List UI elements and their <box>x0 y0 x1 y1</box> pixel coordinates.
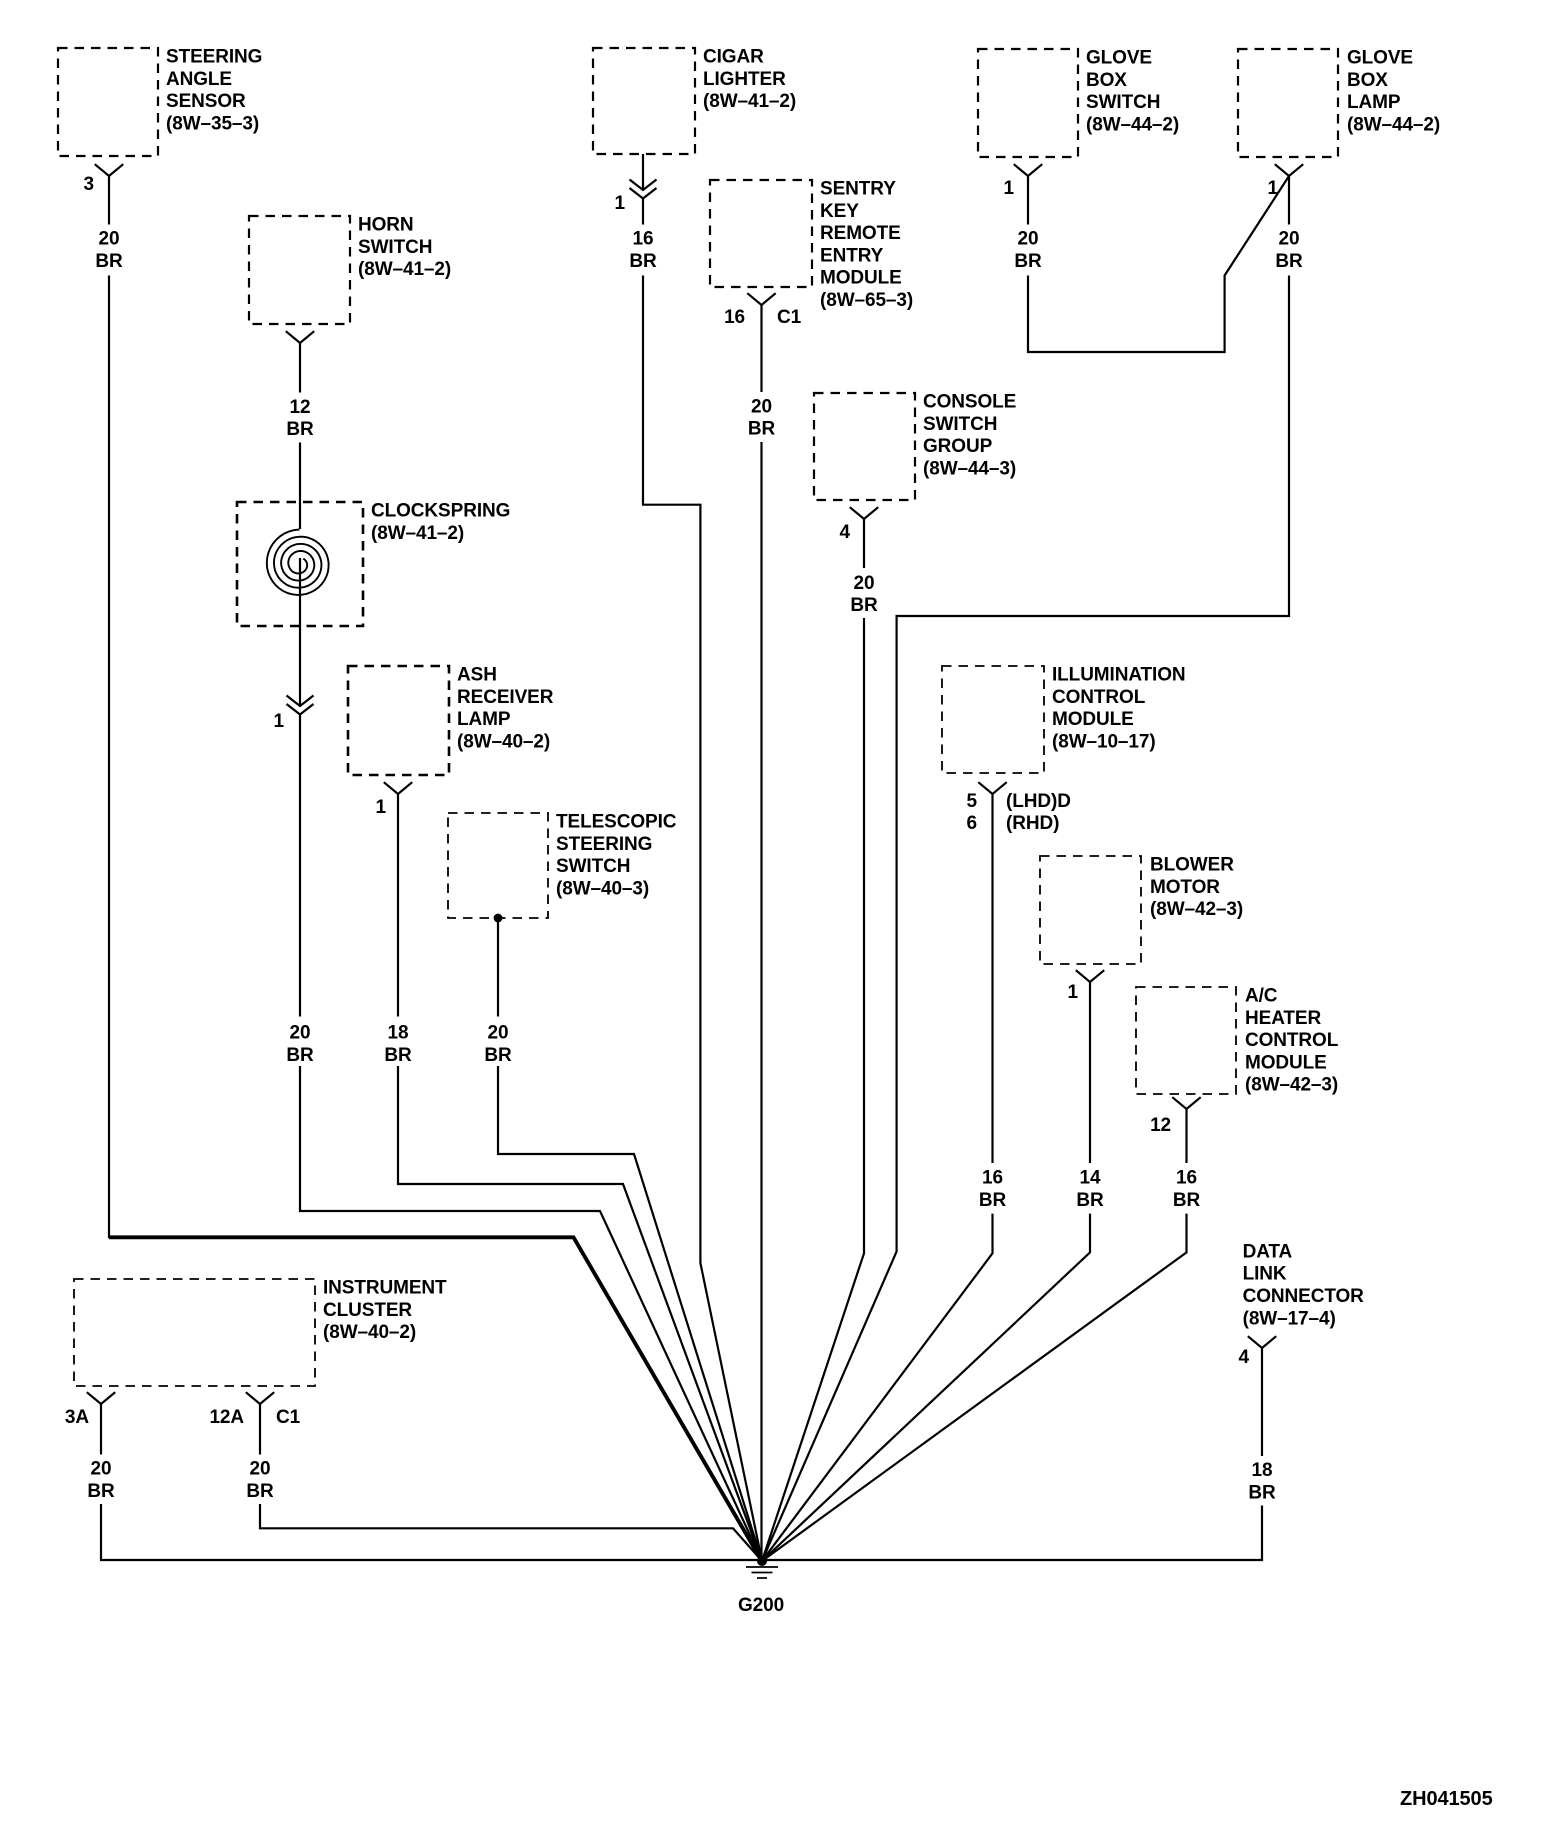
console switch group connector Y <box>850 507 878 519</box>
svg-text:BR: BR <box>1076 1190 1104 1211</box>
svg-text:BR: BR <box>286 1045 314 1066</box>
svg-text:CLUSTER: CLUSTER <box>323 1300 412 1321</box>
svg-text:(RHD): (RHD) <box>1006 813 1059 834</box>
wire label 12 BR (horn switch) <box>286 397 314 440</box>
wire: blower motor to G200 <box>762 982 1090 1561</box>
label (RHD) <box>1006 813 1059 834</box>
svg-text:MOTOR: MOTOR <box>1150 877 1220 898</box>
steering angle sensor label <box>166 47 262 135</box>
cigar lighter label <box>703 47 796 113</box>
illumination control module component box <box>942 666 1044 773</box>
blower motor label <box>1150 855 1243 921</box>
svg-text:INSTRUMENT: INSTRUMENT <box>323 1278 447 1299</box>
svg-text:SENTRY: SENTRY <box>820 179 896 200</box>
wire label 18 BR (data link connector) <box>1248 1460 1276 1503</box>
wire label 20 BR (glove box switch) <box>1014 229 1042 272</box>
svg-text:BR: BR <box>1173 1190 1201 1211</box>
svg-text:CIGAR: CIGAR <box>703 47 764 68</box>
svg-text:ASH: ASH <box>457 665 497 686</box>
svg-text:GLOVE: GLOVE <box>1347 48 1413 69</box>
clockspring label <box>371 501 510 544</box>
pin 5 (illumination module LHD) <box>967 791 978 812</box>
ash receiver lamp component box <box>348 666 449 775</box>
svg-text:5: 5 <box>967 791 978 812</box>
console switch group label <box>923 392 1016 480</box>
svg-text:(8W–10–17): (8W–10–17) <box>1052 731 1156 752</box>
svg-text:(8W–44–2): (8W–44–2) <box>1086 114 1179 135</box>
svg-text:16: 16 <box>633 229 654 250</box>
cigar lighter component box <box>593 48 695 154</box>
wire: ash receiver lamp to G200 <box>398 794 762 1561</box>
svg-text:CONSOLE: CONSOLE <box>923 392 1016 413</box>
svg-text:12: 12 <box>290 397 311 418</box>
svg-text:CLOCKSPRING: CLOCKSPRING <box>371 501 510 522</box>
telescopic steering switch label <box>556 812 677 900</box>
pin 1 (clockspring connector) <box>274 711 285 732</box>
A/C heater control module component box <box>1136 987 1236 1094</box>
svg-text:20: 20 <box>290 1023 311 1044</box>
svg-text:BR: BR <box>286 419 314 440</box>
svg-text:REMOTE: REMOTE <box>820 223 901 244</box>
illumination control module connector Y <box>978 782 1006 794</box>
svg-text:(8W–17–4): (8W–17–4) <box>1243 1308 1336 1329</box>
svg-text:20: 20 <box>488 1023 509 1044</box>
pin 4 (data link connector) <box>1239 1347 1250 1368</box>
pin 16 (sentry key module) <box>724 307 745 328</box>
glove box lamp connector Y <box>1275 164 1303 176</box>
svg-text:C1: C1 <box>276 1407 301 1428</box>
ground label G200 <box>738 1595 784 1616</box>
svg-text:BR: BR <box>748 419 776 440</box>
svg-text:SWITCH: SWITCH <box>1086 92 1160 113</box>
sentry key module connector Y <box>747 293 775 305</box>
svg-text:(8W–41–2): (8W–41–2) <box>703 91 796 112</box>
wire: A/C heater control module to G200 <box>762 1109 1187 1561</box>
svg-text:(8W–41–2): (8W–41–2) <box>371 523 464 544</box>
wire label 14 BR (blower motor) <box>1076 1168 1104 1211</box>
svg-text:20: 20 <box>751 396 772 417</box>
label (LHD)D <box>1006 791 1071 812</box>
wire label 16 BR (A/C heater control module) <box>1173 1168 1201 1211</box>
pin 1 (glove box lamp) <box>1268 178 1279 199</box>
svg-text:20: 20 <box>854 573 875 594</box>
illumination control module label <box>1052 665 1186 753</box>
svg-text:(8W–41–2): (8W–41–2) <box>358 259 451 280</box>
telescopic steering switch junction dot <box>494 914 503 923</box>
svg-text:BOX: BOX <box>1347 70 1388 91</box>
svg-text:(8W–40–2): (8W–40–2) <box>323 1322 416 1343</box>
svg-text:(LHD)D: (LHD)D <box>1006 791 1071 812</box>
svg-text:1: 1 <box>274 711 285 732</box>
svg-text:16: 16 <box>724 307 745 328</box>
svg-text:ANGLE: ANGLE <box>166 69 232 90</box>
clockspring in-line connector chevrons <box>287 696 314 715</box>
wire: cigar lighter connector to G200 <box>643 199 762 1562</box>
wire: console switch group to G200 <box>762 519 864 1561</box>
steering angle sensor component box <box>58 48 158 156</box>
wire label 20 BR (glove box lamp) <box>1275 229 1303 272</box>
svg-text:BOX: BOX <box>1086 70 1127 91</box>
svg-text:RECEIVER: RECEIVER <box>457 687 554 708</box>
svg-text:ILLUMINATION: ILLUMINATION <box>1052 665 1186 686</box>
ash receiver lamp label <box>457 665 554 753</box>
svg-text:(8W–44–2): (8W–44–2) <box>1347 114 1440 135</box>
pin 4 (console switch group) <box>840 522 851 543</box>
svg-text:1: 1 <box>1068 982 1079 1003</box>
glove box lamp component box <box>1238 49 1338 157</box>
svg-text:SWITCH: SWITCH <box>358 237 432 258</box>
glove box switch connector Y <box>1014 164 1042 176</box>
svg-text:LAMP: LAMP <box>457 709 511 730</box>
svg-text:16: 16 <box>982 1168 1003 1189</box>
steering angle sensor connector Y <box>95 164 123 176</box>
wire label 16 BR (cigar lighter) <box>629 229 657 272</box>
clockspring spiral symbol <box>267 530 329 595</box>
svg-text:BR: BR <box>95 251 123 272</box>
wire label 16 BR (illumination control module) <box>979 1168 1007 1211</box>
svg-text:3A: 3A <box>65 1407 89 1428</box>
clockspring component box <box>237 502 363 626</box>
drawing number ZH041505 <box>1400 1788 1493 1810</box>
svg-text:BR: BR <box>384 1045 412 1066</box>
svg-text:(8W–44–3): (8W–44–3) <box>923 458 1016 479</box>
svg-text:BR: BR <box>979 1190 1007 1211</box>
svg-text:KEY: KEY <box>820 201 859 222</box>
svg-text:SWITCH: SWITCH <box>923 414 997 435</box>
wire label 20 BR (steering angle sensor) <box>95 229 123 272</box>
data link connector Y <box>1248 1336 1276 1348</box>
svg-text:A/C: A/C <box>1245 986 1278 1007</box>
svg-text:STEERING: STEERING <box>556 834 652 855</box>
horn switch component box <box>249 216 350 324</box>
svg-text:CONTROL: CONTROL <box>1052 687 1146 708</box>
wire: glove box switch to glove box lamp junction <box>1028 176 1289 352</box>
svg-text:BR: BR <box>87 1481 115 1502</box>
wire: instrument cluster pin 3A to G200 <box>101 1404 762 1560</box>
wire: horn switch to clockspring <box>299 343 301 529</box>
svg-text:TELESCOPIC: TELESCOPIC <box>556 812 677 833</box>
wire label 20 BR (sentry key module) <box>748 396 776 439</box>
pin 12A (instrument cluster) <box>209 1407 244 1428</box>
svg-text:SWITCH: SWITCH <box>556 856 630 877</box>
svg-text:16: 16 <box>1176 1168 1197 1189</box>
wire: steering angle sensor to ground run (vertical) <box>108 176 110 1238</box>
svg-text:MODULE: MODULE <box>820 268 902 289</box>
svg-text:MODULE: MODULE <box>1245 1052 1327 1073</box>
ground symbol G200 <box>746 1567 778 1578</box>
pin 3A (instrument cluster) <box>65 1407 89 1428</box>
wire: instrument cluster pin 12A to G200 <box>260 1404 762 1561</box>
wire label 20 BR (clockspring circuit) <box>286 1023 314 1066</box>
instrument cluster connector Y pin 12A/C1 <box>246 1392 274 1404</box>
pin 1 (ash receiver lamp) <box>376 797 387 818</box>
svg-text:20: 20 <box>91 1459 112 1480</box>
svg-text:CONNECTOR: CONNECTOR <box>1243 1286 1365 1307</box>
wire: steering angle sensor heavy run to G200 <box>109 1237 762 1561</box>
wire label 18 BR (ash receiver lamp) <box>384 1023 412 1066</box>
svg-text:1: 1 <box>376 797 387 818</box>
svg-text:DATA: DATA <box>1243 1241 1293 1262</box>
svg-text:BR: BR <box>246 1481 274 1502</box>
svg-text:HORN: HORN <box>358 215 414 236</box>
sentry key remote entry module label <box>820 179 913 312</box>
sentry key remote entry module component box <box>710 180 812 287</box>
pin C1 (instrument cluster) <box>276 1407 301 1428</box>
cigar lighter in-line connector chevrons <box>630 180 657 199</box>
svg-text:ENTRY: ENTRY <box>820 245 884 266</box>
wire: clockspring center to in-line connector <box>299 558 301 706</box>
wire label 20 BR (instrument cluster 3A) <box>87 1459 115 1502</box>
svg-text:BR: BR <box>484 1045 512 1066</box>
pin 3 (steering angle sensor) <box>84 174 94 195</box>
svg-text:12: 12 <box>1150 1115 1171 1136</box>
horn switch label <box>358 215 451 281</box>
wire: cigar lighter to in-line connector <box>642 154 644 190</box>
ash receiver lamp connector Y <box>384 782 412 794</box>
svg-text:12A: 12A <box>209 1407 244 1428</box>
svg-text:4: 4 <box>840 522 851 543</box>
pin 1 (glove box switch) <box>1004 178 1015 199</box>
svg-text:SENSOR: SENSOR <box>166 91 246 112</box>
svg-text:20: 20 <box>1018 229 1039 250</box>
svg-text:HEATER: HEATER <box>1245 1008 1321 1029</box>
svg-text:20: 20 <box>250 1459 271 1480</box>
svg-text:LAMP: LAMP <box>1347 92 1401 113</box>
svg-text:BR: BR <box>1248 1482 1276 1503</box>
svg-text:4: 4 <box>1239 1347 1250 1368</box>
svg-text:20: 20 <box>1279 229 1300 250</box>
data link connector label <box>1243 1241 1365 1329</box>
svg-text:ZH041505: ZH041505 <box>1400 1788 1493 1810</box>
blower motor connector Y <box>1076 970 1104 982</box>
wire: clockspring connector to elbow and G200 <box>300 715 762 1562</box>
wire label 20 BR (instrument cluster 12A) <box>246 1459 274 1502</box>
svg-text:BR: BR <box>1014 251 1042 272</box>
svg-text:(8W–40–2): (8W–40–2) <box>457 731 550 752</box>
pin 1 (blower motor) <box>1068 982 1079 1003</box>
svg-text:GROUP: GROUP <box>923 436 993 457</box>
svg-text:G200: G200 <box>738 1595 784 1616</box>
glove box lamp label <box>1347 48 1440 136</box>
console switch group component box <box>814 393 915 500</box>
instrument cluster component box <box>74 1279 315 1386</box>
svg-text:BR: BR <box>1275 251 1303 272</box>
svg-text:GLOVE: GLOVE <box>1086 48 1152 69</box>
svg-text:BR: BR <box>629 251 657 272</box>
instrument cluster connector Y pin 3A <box>87 1392 115 1404</box>
wire: glove box lamp to G200 <box>762 176 1289 1561</box>
svg-text:C1: C1 <box>777 307 802 328</box>
wire: illumination control module to G200 <box>762 794 993 1561</box>
svg-text:14: 14 <box>1080 1168 1101 1189</box>
svg-text:(8W–42–3): (8W–42–3) <box>1245 1075 1338 1096</box>
svg-text:LIGHTER: LIGHTER <box>703 69 786 90</box>
blower motor component box <box>1040 856 1141 964</box>
svg-text:BLOWER: BLOWER <box>1150 855 1234 876</box>
svg-text:MODULE: MODULE <box>1052 709 1134 730</box>
svg-text:LINK: LINK <box>1243 1264 1287 1285</box>
svg-text:20: 20 <box>99 229 120 250</box>
wire label 20 BR (console switch group) <box>850 573 878 616</box>
svg-text:(8W–65–3): (8W–65–3) <box>820 290 913 311</box>
svg-text:1: 1 <box>1004 178 1015 199</box>
svg-text:6: 6 <box>967 813 977 834</box>
horn switch connector Y <box>286 331 314 343</box>
svg-text:BR: BR <box>850 595 878 616</box>
pin 6 (illumination module RHD) <box>967 813 977 834</box>
svg-text:3: 3 <box>84 174 94 195</box>
svg-text:1: 1 <box>615 193 626 214</box>
wire: sentry key remote entry module to G200 <box>760 305 762 1561</box>
svg-text:18: 18 <box>388 1023 409 1044</box>
pin 12 (A/C heater control module) <box>1150 1115 1171 1136</box>
pin C1 (sentry key module) <box>777 307 802 328</box>
svg-text:(8W–40–3): (8W–40–3) <box>556 878 649 899</box>
telescopic steering switch component box <box>448 813 548 918</box>
A/C heater control module connector Y <box>1172 1097 1200 1109</box>
glove box switch component box <box>978 49 1078 157</box>
wire: telescopic steering switch to G200 <box>498 918 762 1561</box>
svg-text:CONTROL: CONTROL <box>1245 1030 1339 1051</box>
wire: data link connector to G200 <box>762 1348 1262 1560</box>
svg-text:(8W–42–3): (8W–42–3) <box>1150 899 1243 920</box>
svg-text:18: 18 <box>1252 1460 1273 1481</box>
glove box switch label <box>1086 48 1179 136</box>
A/C heater control module label <box>1245 986 1339 1096</box>
pin 1 (cigar lighter connector) <box>615 193 626 214</box>
svg-text:(8W–35–3): (8W–35–3) <box>166 114 259 135</box>
wire label 20 BR (telescopic steering switch) <box>484 1023 512 1066</box>
svg-text:STEERING: STEERING <box>166 47 262 68</box>
instrument cluster label <box>323 1278 447 1344</box>
ground junction dot G200 <box>757 1556 767 1566</box>
